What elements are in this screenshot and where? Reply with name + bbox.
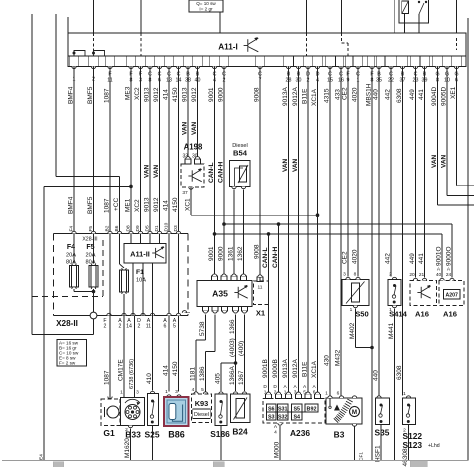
- pin B39 of A11-I: [422, 66, 426, 68]
- svg-text:S3: S3: [268, 414, 275, 420]
- svg-text:433: 433: [334, 89, 341, 100]
- wire XE1 with elbow to right edge: [456, 70, 458, 186]
- svg-text:9001: 9001: [208, 246, 215, 261]
- svg-text:414: 414: [162, 200, 169, 211]
- svg-text:A35: A35: [212, 289, 228, 299]
- pin aux of B3: [352, 396, 356, 398]
- wire S186 ground: [220, 426, 222, 461]
- wire M402 from S50: [355, 308, 357, 347]
- wire 440: [378, 70, 380, 396]
- pin A11 on X28-II row: [150, 313, 154, 315]
- svg-text:HSF1: HSF1: [374, 445, 381, 462]
- wire 9000 CAN-H: [223, 70, 225, 275]
- wire 1087 to G1: [109, 316, 111, 397]
- svg-text:+CC: +CC: [113, 198, 120, 211]
- svg-text:S4: S4: [293, 414, 300, 420]
- wire 433/M432: [340, 70, 342, 398]
- svg-text:CAN-L: CAN-L: [208, 162, 215, 183]
- pin B37 of A11-I: [400, 66, 404, 68]
- module A236: [263, 399, 325, 424]
- switch S25: [150, 391, 154, 393]
- svg-text:VAN: VAN: [431, 154, 438, 168]
- svg-text:24: 24: [446, 272, 452, 278]
- enclosure X28-II right edge: [187, 234, 189, 316]
- svg-text:B11E: B11E: [301, 361, 308, 377]
- ECU A11-I box: [68, 33, 466, 66]
- wire CM17E to B33: [123, 316, 125, 395]
- resistor B24: [233, 392, 237, 394]
- svg-text:A11-II: A11-II: [130, 250, 150, 259]
- svg-text:4020: 4020: [351, 87, 358, 102]
- wire 6738 to B33: [134, 316, 136, 395]
- wire BMF4: [73, 70, 75, 234]
- pin F4 on X28-III: [72, 231, 76, 233]
- svg-text:VAN: VAN: [143, 164, 150, 178]
- svg-text:37: 37: [182, 190, 188, 196]
- wire F5 output to connector circle: [93, 289, 95, 312]
- pin F9 of A11-I: [346, 66, 350, 68]
- pin top of A35 x243.5: [240, 276, 246, 280]
- internal link notch pin 2: [94, 51, 105, 57]
- internal dashed link x141: [140, 33, 142, 56]
- pin D3 on X28-III: [176, 231, 180, 233]
- pin C22 of A11-I: [389, 66, 393, 68]
- svg-text:S35: S35: [375, 428, 390, 438]
- svg-text:E4: E4: [38, 454, 44, 460]
- junction 9000 H2: [222, 222, 226, 226]
- svg-text:46308: 46308: [402, 448, 409, 466]
- svg-text:F5: F5: [88, 226, 94, 232]
- internal dashed link x456.5: [456, 38, 458, 50]
- pin A6 on X28-II row: [167, 313, 171, 315]
- svg-text:1: 1: [165, 389, 168, 395]
- footer mark 1: [53, 462, 64, 467]
- internal dashed link x93.5: [93, 33, 95, 51]
- wire 1366A to B24: [235, 363, 237, 391]
- wire E4 ground path: [93, 319, 95, 335]
- wire 1366 (4003): [235, 314, 237, 363]
- svg-text:A16: A16: [443, 310, 457, 319]
- pin F8 of A11-I: [129, 66, 133, 68]
- wire XC1 from A198 pin 37: [190, 187, 192, 215]
- svg-text:CE2: CE2: [341, 87, 348, 100]
- wire A11-II out to A14: [132, 263, 134, 316]
- pin F5 on X28-III: [91, 231, 95, 233]
- wire feeder left x56: [55, 14, 57, 176]
- svg-text:B54: B54: [233, 149, 248, 158]
- svg-text:D9: D9: [135, 225, 141, 231]
- wire 449: [415, 70, 417, 278]
- svg-text:4150: 4150: [172, 87, 179, 102]
- pin A4 of A236: [278, 423, 282, 425]
- wire 405 branch to S186: [221, 362, 236, 364]
- pin of B54 wire 1361: [232, 187, 236, 189]
- svg-text:B3: B3: [334, 430, 345, 440]
- wire B11E: [307, 70, 309, 394]
- pin bottom of A35 x205.5: [202, 307, 208, 311]
- ground rail bottom: [2, 460, 468, 462]
- wire feeder top x220: [219, 0, 221, 33]
- wire 4150: [178, 70, 180, 392]
- svg-text:M1620: M1620: [124, 438, 131, 458]
- wire CAN-L 9001B to A236: [268, 234, 270, 394]
- pin D2 on X28-II row: [141, 313, 145, 315]
- svg-text:1087: 1087: [103, 88, 110, 103]
- pin top of A35 x214.5: [211, 276, 217, 280]
- wire CE2: [347, 70, 349, 277]
- wire 9013 VAN: [149, 70, 151, 244]
- pin D9 on X28-III: [138, 231, 142, 233]
- wire 1087 upper: [109, 70, 111, 234]
- pin D1 on X28-III: [157, 231, 161, 233]
- svg-text:S123: S123: [403, 440, 423, 450]
- wire 9000O to A16: [451, 224, 453, 278]
- wire BMF5: [93, 70, 95, 234]
- svg-text:9008: 9008: [253, 244, 260, 259]
- svg-text:6738 (6736): 6738 (6736): [129, 359, 135, 389]
- svg-text:S186: S186: [210, 429, 230, 439]
- svg-text:M000: M000: [273, 441, 280, 458]
- svg-text:1: 1: [350, 307, 353, 313]
- svg-text:XC2: XC2: [134, 87, 141, 100]
- svg-text:XC2: XC2: [134, 199, 141, 212]
- wire 9008: [259, 70, 261, 277]
- pin B6 on X28-III: [117, 231, 121, 233]
- wire 9001 CAN-L: [214, 70, 216, 275]
- svg-text:1: 1: [325, 391, 328, 397]
- wire feeder left x32: [31, 14, 33, 335]
- enclosure X28-II left edge: [53, 234, 55, 316]
- svg-text:2: 2: [119, 324, 122, 330]
- stub connector left of A35: [182, 311, 186, 313]
- svg-text:A207: A207: [445, 293, 458, 299]
- wire +CC drop: [119, 176, 121, 233]
- pin C13 of A11-I: [167, 66, 171, 68]
- module A16 (1): [410, 281, 437, 306]
- svg-text:2: 2: [389, 272, 392, 278]
- svg-text:20: 20: [409, 272, 415, 278]
- svg-text:1: 1: [120, 390, 123, 396]
- wire relay contact to A11-I: [418, 14, 420, 33]
- svg-text:9012A: 9012A: [292, 87, 299, 106]
- wire CAN-H bus H2: [224, 223, 452, 225]
- pin 2 of B33: [128, 426, 132, 428]
- svg-text:8: 8: [354, 272, 357, 278]
- pin bottom of A35 x235.5: [232, 307, 238, 311]
- svg-text:442: 442: [384, 89, 391, 100]
- pin A40 of A16 (2): [440, 278, 444, 280]
- svg-text:6308: 6308: [396, 88, 403, 103]
- pin D4 of A11-I: [315, 66, 319, 68]
- svg-text:VAN: VAN: [153, 164, 160, 178]
- pin 1 of B33: [123, 394, 125, 397]
- pin C14 of A11-I: [176, 66, 180, 68]
- svg-text:B2: B2: [104, 225, 110, 231]
- wire 1386 to K93 pin 5: [214, 314, 216, 351]
- svg-text:441: 441: [418, 89, 425, 100]
- svg-text:9013: 9013: [181, 87, 188, 102]
- svg-text:VAN: VAN: [440, 154, 447, 168]
- svg-text:414: 414: [162, 89, 169, 100]
- wire XC1 link H1 to XC1A: [191, 214, 318, 216]
- wire 1087 through X28-II: [109, 234, 111, 316]
- svg-text:A16: A16: [415, 310, 429, 319]
- pin G10 of A11-I: [445, 66, 449, 68]
- B3 interior contact: [329, 398, 331, 406]
- svg-text:VAN: VAN: [292, 158, 299, 172]
- wire right edge x468: [467, 18, 469, 461]
- wire M1620 ground: [130, 428, 132, 460]
- svg-text:4: 4: [274, 430, 277, 436]
- resistor inside B54: [240, 166, 247, 182]
- svg-text:D8: D8: [125, 225, 131, 231]
- svg-text:D10: D10: [163, 222, 169, 231]
- svg-text:9001: 9001: [208, 87, 215, 102]
- footer mark 2: [213, 462, 224, 467]
- fuse F1 10A: [119, 234, 121, 265]
- pin G8 of A11-I: [435, 66, 439, 68]
- svg-text:XC1A: XC1A: [311, 88, 318, 106]
- svg-text:1361: 1361: [227, 246, 234, 261]
- svg-text:1362: 1362: [237, 246, 244, 261]
- enclosure X28-II top connector row X28-III: [54, 233, 189, 235]
- svg-text:X1: X1: [256, 309, 266, 318]
- svg-text:I= 2 gr: I= 2 gr: [199, 7, 213, 12]
- svg-text:(4003): (4003): [229, 338, 236, 357]
- svg-text:441: 441: [418, 253, 425, 264]
- svg-text:B86: B86: [168, 430, 185, 440]
- svg-text:S414: S414: [389, 310, 408, 319]
- svg-text:A11-I: A11-I: [218, 43, 238, 52]
- svg-text:M441: M441: [388, 322, 395, 339]
- svg-text:2: 2: [104, 324, 107, 330]
- wire B3 ground: [354, 426, 356, 460]
- wire feeder top x456.5: [456, 0, 458, 33]
- svg-text:5: 5: [173, 324, 176, 330]
- ignition switch B33: [121, 398, 145, 426]
- svg-text:10A: 10A: [136, 278, 146, 284]
- pin C2 of A11-I: [222, 66, 226, 68]
- wire 9013 to A198: [187, 70, 189, 159]
- svg-text:9013: 9013: [143, 197, 150, 212]
- svg-text:9000B: 9000B: [272, 359, 279, 378]
- pin D5 on X28-III: [148, 231, 152, 233]
- svg-text:4315: 4315: [323, 88, 330, 103]
- svg-text:ME3: ME3: [124, 86, 131, 100]
- svg-text:3: 3: [136, 390, 139, 396]
- pin 20 of A16: [413, 278, 417, 280]
- svg-text:S5: S5: [293, 406, 300, 412]
- svg-text:9005D: 9005D: [440, 87, 447, 106]
- pin G6 of A11-I: [454, 66, 458, 68]
- wire 9012A VAN: [298, 70, 300, 394]
- svg-text:14: 14: [126, 324, 132, 330]
- svg-text:1386: 1386: [199, 366, 206, 381]
- svg-text:X28-II: X28-II: [56, 319, 78, 328]
- wire CAN-L bus H3: [215, 233, 443, 235]
- svg-text:M402: M402: [349, 322, 356, 339]
- B3 motor M: [350, 407, 360, 417]
- wire stub above A11-I left corner: [67, 17, 69, 33]
- wire XC2: [140, 70, 142, 244]
- svg-text:2: 2: [138, 324, 141, 330]
- internal dashed link jog x341.5 to F9: [341, 33, 343, 43]
- svg-text:CAN-H: CAN-H: [272, 247, 279, 268]
- svg-text:VAN: VAN: [282, 158, 289, 172]
- svg-text:S32: S32: [278, 414, 288, 420]
- relay K93 Diesel: [194, 392, 198, 394]
- junction on ME1 wire: [129, 185, 133, 189]
- pin D10 on X28-III: [167, 231, 171, 233]
- pin 3 of B33: [134, 394, 136, 397]
- wire F1 output to A2: [123, 294, 125, 316]
- svg-text:(400): (400): [238, 341, 245, 356]
- wire feeder top x141: [140, 0, 142, 33]
- svg-text:F= 2 sw: F= 2 sw: [59, 360, 76, 365]
- junction M402 on MBS1H: [370, 346, 374, 350]
- svg-text:MBS1H: MBS1H: [365, 83, 372, 106]
- wire 442: [390, 70, 392, 277]
- wire feed to ME1 net: [44, 185, 131, 187]
- svg-text:5738: 5738: [199, 321, 206, 336]
- wire 9013A VAN: [288, 70, 290, 394]
- svg-text:1367: 1367: [238, 370, 245, 385]
- ECU A11-I symbol: [244, 37, 259, 52]
- svg-text:9012: 9012: [153, 87, 160, 102]
- svg-text:B33: B33: [125, 430, 141, 440]
- pin C16 of A11-I: [339, 66, 343, 68]
- pin A24 of A16 (2): [450, 278, 454, 280]
- svg-text:B6: B6: [114, 225, 120, 231]
- svg-text:410: 410: [146, 373, 153, 384]
- svg-text:6: 6: [164, 324, 167, 330]
- pin A5 on X28-II row: [176, 313, 180, 315]
- pin 3 of S50: [346, 277, 350, 279]
- wire 46308 ground: [408, 425, 410, 461]
- switch S186: [219, 392, 223, 394]
- pin 1 of A11-I: [72, 66, 76, 68]
- wire 441: [424, 70, 426, 278]
- svg-text:VAN: VAN: [181, 121, 188, 135]
- svg-text:D5: D5: [144, 225, 150, 231]
- svg-text:1087: 1087: [103, 198, 110, 213]
- svg-text:3: 3: [175, 389, 178, 395]
- wire MBS1H: [371, 70, 373, 461]
- blower motor B3: [326, 398, 362, 424]
- svg-text:430: 430: [323, 355, 330, 366]
- wire F4 output: [73, 289, 75, 292]
- svg-text:4: 4: [192, 387, 195, 393]
- wire 6308: [402, 70, 404, 396]
- pin C1 of A11-I: [356, 66, 360, 68]
- pin A2 on X28-II row: [122, 313, 126, 315]
- wire 410 to S25: [152, 316, 154, 391]
- pin F8 of A11-I: [370, 66, 374, 68]
- pin B35 of A11-I: [377, 66, 381, 68]
- svg-text:9012: 9012: [153, 197, 160, 212]
- pin B2 on X28-III: [108, 231, 112, 233]
- svg-text:1366A: 1366A: [229, 366, 236, 385]
- pin D2 of A11-I: [306, 66, 310, 68]
- svg-text:S50: S50: [355, 310, 369, 319]
- pin 21 of A16: [422, 278, 426, 280]
- svg-text:9013A: 9013A: [282, 87, 289, 106]
- svg-text:9013A: 9013A: [282, 359, 289, 378]
- pin C8 of A11-I: [148, 66, 152, 68]
- svg-text:440: 440: [372, 89, 379, 100]
- svg-text:XC1: XC1: [184, 198, 191, 211]
- svg-text:M: M: [352, 409, 357, 416]
- switch S35: [377, 396, 381, 398]
- pin B38 of A11-I: [186, 66, 190, 68]
- ECU A35 box: [197, 281, 252, 307]
- pin 1 of S50: [353, 306, 357, 308]
- pin F2 on X28-II row: [107, 313, 111, 315]
- junction 9001 H3: [213, 232, 217, 236]
- timer info box Q/I: [189, 0, 223, 12]
- wire 1361: [233, 189, 235, 274]
- switch S414: [392, 277, 396, 279]
- svg-text:9000: 9000: [217, 246, 224, 261]
- B33 rotary symbol: [125, 405, 140, 420]
- wire S35 ground HSF1: [380, 425, 382, 461]
- svg-text:A236: A236: [290, 428, 310, 438]
- svg-text:20A: 20A: [66, 253, 76, 259]
- enclosure X28-II bottom connector row: [54, 315, 189, 317]
- internal dashed link x306.5: [306, 33, 308, 56]
- svg-text:405: 405: [214, 373, 221, 384]
- zone boundary dashed: [32, 296, 103, 298]
- pin C15 of A11-I: [328, 66, 332, 68]
- sensor B86 highlighted: [167, 395, 171, 397]
- svg-text:S6: S6: [268, 406, 275, 412]
- junction CAN-H branch: [277, 222, 281, 226]
- pin C7 of A11-I: [258, 66, 262, 68]
- svg-text:CF1: CF1: [358, 452, 364, 461]
- svg-text:9012: 9012: [191, 87, 198, 102]
- svg-text:VAN: VAN: [191, 121, 198, 135]
- pin F11 of A11-I: [108, 66, 112, 68]
- svg-text:D3: D3: [173, 225, 179, 231]
- ECU A11-II box: [124, 244, 166, 264]
- wire 9012 VAN: [159, 70, 161, 244]
- relay K at top right: [399, 0, 429, 23]
- pin 1 of B3: [328, 396, 332, 398]
- pin B30 of A11-I: [296, 66, 300, 68]
- switch S122 S123: [406, 396, 410, 398]
- svg-text:CAN-H: CAN-H: [217, 162, 224, 183]
- pin bottom of A35 x224.5: [221, 307, 227, 311]
- svg-text:BMF5: BMF5: [87, 196, 94, 214]
- pin 8 of S50: [356, 277, 360, 279]
- wire 4315/430: [329, 70, 331, 398]
- pin 6 of B3: [339, 396, 343, 398]
- svg-text:5: 5: [201, 387, 204, 393]
- svg-text:449: 449: [409, 89, 416, 100]
- wire S25 ground: [152, 426, 154, 461]
- legend box wire gauge: [57, 340, 87, 367]
- svg-text:M432: M432: [334, 349, 341, 366]
- wire 9012 to A198: [197, 70, 199, 159]
- pin bottom of A35 x215: [212, 307, 218, 311]
- wire 9004D VAN with elbow to right edge: [437, 70, 439, 205]
- junction CAN-L branch: [267, 232, 271, 236]
- connector cell separators A11-I: [68, 56, 70, 66]
- svg-text:9000O: 9000O: [445, 246, 452, 266]
- svg-text:CAN-L: CAN-L: [262, 247, 269, 268]
- svg-text:D: D: [263, 384, 267, 390]
- svg-text:CE2: CE2: [341, 251, 348, 264]
